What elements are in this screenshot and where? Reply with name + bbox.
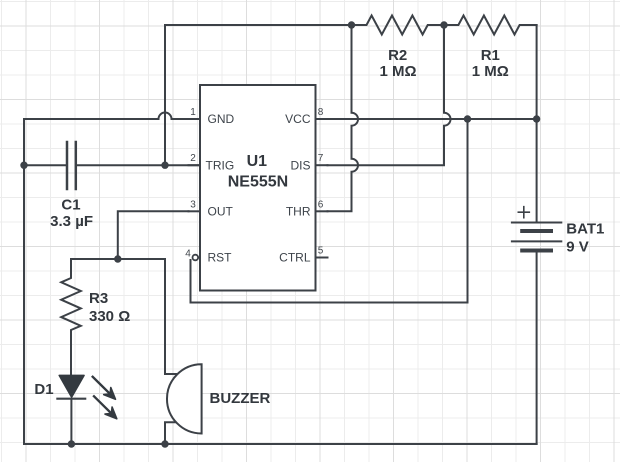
junction node: R2 left / THR xyxy=(348,21,355,28)
battery BAT1 plate short bottom xyxy=(522,249,551,253)
label C1 xyxy=(61,197,80,214)
wire: buzzer top drop xyxy=(165,259,176,374)
junction node: left rail / C1 xyxy=(20,162,27,169)
label C1 value 3.3 µF xyxy=(50,213,93,230)
pin number 2 xyxy=(190,153,196,164)
resistor R1 xyxy=(444,16,537,35)
pin label RST xyxy=(208,251,233,265)
LED D1 anode triangle xyxy=(59,375,84,397)
svg-text:6: 6 xyxy=(318,199,324,210)
svg-text:1 MΩ: 1 MΩ xyxy=(379,63,416,80)
svg-text:3: 3 xyxy=(190,199,196,210)
resistor R3 xyxy=(61,259,81,375)
wire: horizontal node R3 - OUT - buzzer xyxy=(71,258,165,260)
pin 7 stub xyxy=(316,164,328,166)
pin number 8 xyxy=(318,107,324,118)
svg-text:R1: R1 xyxy=(481,47,500,64)
svg-text:U1: U1 xyxy=(247,153,268,170)
svg-text:RST: RST xyxy=(208,251,233,265)
pin label CTRL xyxy=(279,251,311,265)
pin number 5 xyxy=(318,246,324,257)
pin 6 stub xyxy=(316,210,328,212)
junction node: VCC/RST riser xyxy=(464,115,471,122)
pin label VCC xyxy=(285,112,311,126)
label R3 value 330 Ω xyxy=(89,308,130,325)
LED D1 cathode bar xyxy=(57,398,85,400)
LED D1 bottom lead xyxy=(70,400,72,444)
buzzer body xyxy=(167,364,202,433)
svg-text:8: 8 xyxy=(318,107,324,118)
junction node: buzzer / bottom rail xyxy=(161,440,168,447)
junction node: VCC/battery xyxy=(533,115,540,122)
pin 5 stub xyxy=(316,257,328,259)
pin label TRIG xyxy=(206,158,235,172)
pin label DIS xyxy=(290,158,310,172)
wire: DIS net vertical (R2/R1 node down to pin 7) with hop xyxy=(328,25,451,165)
wire: TRIG net right of C1 to pin 2 xyxy=(77,164,200,166)
battery plus sign xyxy=(518,207,529,218)
capacitor C1 plate right xyxy=(75,142,78,189)
pin number 1 xyxy=(190,107,196,118)
label R1 xyxy=(481,47,500,64)
wire: VCC pin8 horizontal to battery xyxy=(328,118,537,120)
wire: R1 right end down to battery + node xyxy=(536,25,538,119)
wire: buzzer bottom lead xyxy=(165,422,176,444)
pin 1 stub xyxy=(189,118,201,120)
battery BAT1 plate long top xyxy=(512,222,561,224)
svg-text:BAT1: BAT1 xyxy=(566,220,604,237)
pin label OUT xyxy=(208,205,234,219)
junction node: TRIG / top vertical xyxy=(161,162,168,169)
capacitor C1 plate left xyxy=(66,142,69,189)
svg-text:OUT: OUT xyxy=(208,205,234,219)
svg-text:330 Ω: 330 Ω xyxy=(89,308,130,325)
wire: battery positive lead xyxy=(536,119,538,223)
battery BAT1 plate short top xyxy=(522,229,551,233)
svg-text:BUZZER: BUZZER xyxy=(210,390,271,407)
svg-text:R2: R2 xyxy=(388,47,407,64)
wire: RST pin4 to VCC node (down, right under IC, up) xyxy=(191,119,468,303)
svg-text:3.3 µF: 3.3 µF xyxy=(50,213,93,230)
svg-text:5: 5 xyxy=(318,246,324,257)
pin number 7 xyxy=(318,153,324,164)
IC U1 NE555N body xyxy=(200,85,316,291)
wire: TRIG net left of C1 xyxy=(24,164,66,166)
pin 8 stub xyxy=(316,118,328,120)
pin 4 stub xyxy=(195,257,200,259)
IC designator U1 xyxy=(247,153,268,170)
resistor R2 xyxy=(352,16,445,35)
pin 2 stub xyxy=(189,164,201,166)
label R3 xyxy=(89,290,108,307)
pin number 4 xyxy=(185,249,191,260)
label R2 xyxy=(388,47,407,64)
pin label THR xyxy=(286,205,311,219)
pin 3 stub xyxy=(189,210,201,212)
pin label GND xyxy=(208,112,235,126)
junction node: OUT / R3 / buzzer xyxy=(114,255,121,262)
svg-text:1: 1 xyxy=(190,107,196,118)
svg-text:D1: D1 xyxy=(34,381,53,398)
wire: GND pin1 left with hop, left rail down, bottom rail xyxy=(24,113,537,445)
junction node: LED / bottom rail xyxy=(68,440,75,447)
wire: battery negative lead down to bottom rail xyxy=(536,251,538,445)
battery BAT1 plate long bottom xyxy=(512,240,561,242)
pin 4 open terminal circle xyxy=(193,255,199,261)
label BAT1 value 9 V xyxy=(566,239,589,256)
LED arrow 2 xyxy=(94,396,117,419)
svg-text:CTRL: CTRL xyxy=(279,251,311,265)
LED arrow 1 xyxy=(93,377,116,400)
svg-text:7: 7 xyxy=(318,153,324,164)
label R2 value 1 MΩ xyxy=(379,63,416,80)
label BAT1 xyxy=(566,220,604,237)
svg-text:4: 4 xyxy=(185,249,191,260)
svg-text:1 MΩ: 1 MΩ xyxy=(472,63,509,80)
svg-text:C1: C1 xyxy=(61,197,80,214)
svg-text:VCC: VCC xyxy=(285,112,311,126)
wire: THR net vertical (R2 left node down to pin 6) with hops xyxy=(328,25,359,211)
label D1 xyxy=(34,381,53,398)
wire: OUT pin3 left and down to R3/buzzer node xyxy=(118,211,189,259)
IC part number NE555N xyxy=(228,174,288,191)
junction node: R2/R1/DIS xyxy=(440,21,447,28)
svg-text:TRIG: TRIG xyxy=(206,158,235,172)
svg-text:THR: THR xyxy=(286,205,311,219)
svg-text:9 V: 9 V xyxy=(566,239,589,256)
svg-text:DIS: DIS xyxy=(290,158,310,172)
pin number 3 xyxy=(190,199,196,210)
svg-text:GND: GND xyxy=(208,112,235,126)
svg-text:NE555N: NE555N xyxy=(228,174,288,191)
svg-text:2: 2 xyxy=(190,153,196,164)
label BUZZER xyxy=(210,390,271,407)
wire: top-left net (top rail to TRIG vertical) xyxy=(165,25,352,165)
label R1 value 1 MΩ xyxy=(472,63,509,80)
pin number 6 xyxy=(318,199,324,210)
svg-text:R3: R3 xyxy=(89,290,108,307)
